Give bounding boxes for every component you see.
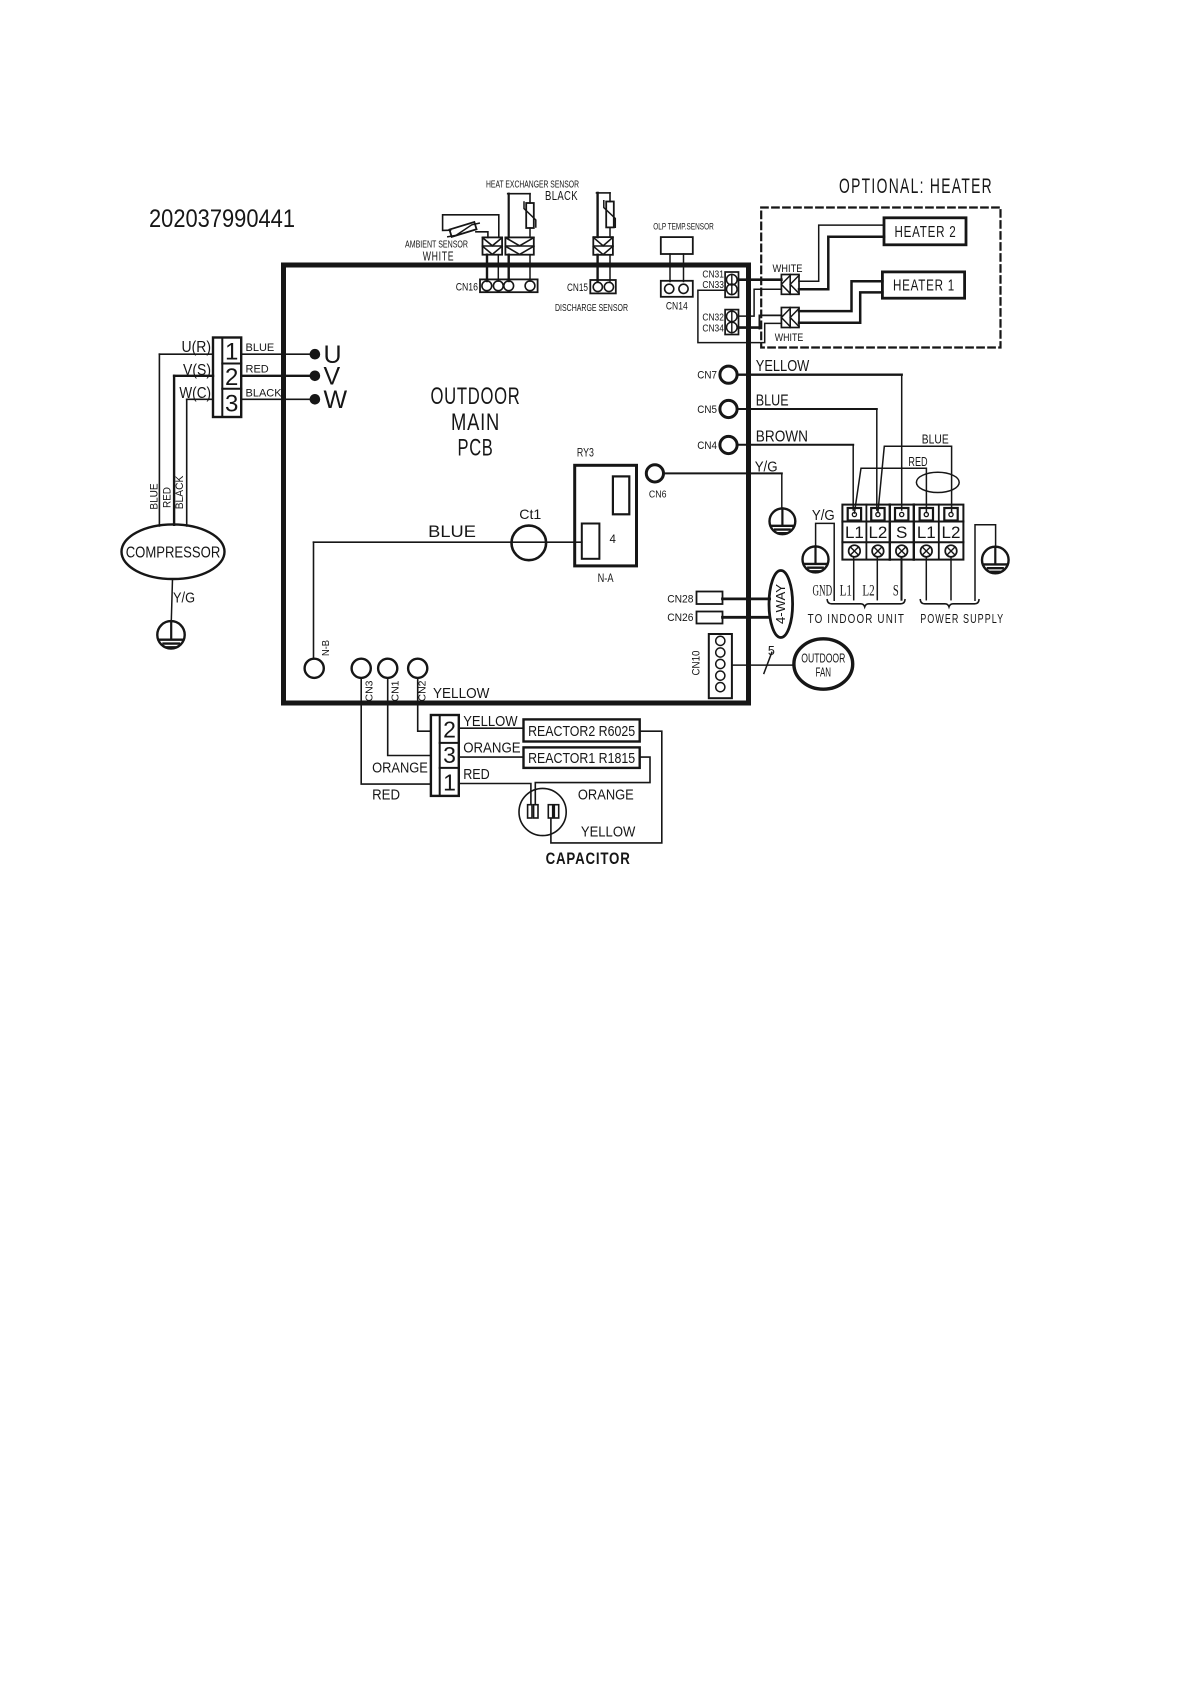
BROWN wire label	[756, 429, 808, 446]
svg-text:YELLOW: YELLOW	[463, 713, 518, 730]
svg-text:1: 1	[443, 770, 456, 796]
svg-text:DISCHARGE SENSOR: DISCHARGE SENSOR	[555, 302, 628, 314]
svg-text:YELLOW: YELLOW	[433, 685, 490, 702]
connector CN16	[456, 279, 538, 293]
rotated BLACK label	[174, 475, 186, 509]
YELLOW wire label	[756, 358, 810, 375]
svg-text:Y/G: Y/G	[173, 590, 195, 607]
svg-text:REACTOR1 R1815: REACTOR1 R1815	[528, 750, 635, 767]
wire reactor1 orange loop to capacitor	[535, 757, 650, 805]
wire U right with node	[241, 341, 341, 369]
ambient sensor label	[405, 239, 468, 264]
svg-text:CN33: CN33	[702, 279, 724, 291]
node N-B	[305, 640, 332, 678]
U(R) V(S) W(C) labels	[179, 339, 211, 402]
Y/G wire label	[755, 459, 778, 476]
YELLOW label at CN2	[433, 685, 490, 702]
svg-text:OUTDOOR: OUTDOOR	[431, 383, 521, 410]
discharge sensor thermistor RT	[604, 201, 616, 228]
discharge sensor wire to connector	[609, 227, 611, 237]
wire reactor2 yellow loop to capacitor	[551, 731, 662, 843]
terminal screw L1 power	[921, 545, 933, 557]
terminal top clamp L2 indoor	[871, 508, 884, 521]
wire U(R) left	[159, 353, 213, 355]
connector CN7	[697, 366, 737, 383]
svg-text:RED: RED	[372, 787, 400, 804]
ground wire power side	[975, 525, 996, 601]
jumper red wire L1 to L1	[854, 455, 927, 513]
wire pin2 to reactor2	[459, 713, 524, 730]
wires from OLP sensor to CN14	[670, 254, 684, 282]
connector CN32 CN34	[702, 310, 738, 335]
4-way valve	[769, 571, 793, 638]
OLP temp sensor box	[661, 237, 693, 254]
heat exchanger sensor thermistor RT	[524, 202, 536, 228]
wire V right with node	[241, 363, 340, 391]
U V W terminal strip	[213, 338, 241, 418]
svg-text:4: 4	[610, 534, 617, 546]
svg-text:L2: L2	[862, 583, 874, 600]
POWER SUPPLY label	[920, 611, 1004, 626]
node CN2	[408, 659, 428, 702]
svg-text:RY3: RY3	[577, 448, 594, 460]
svg-text:WHITE: WHITE	[773, 263, 803, 275]
outdoor fan motor	[794, 639, 853, 689]
connector CN15	[567, 280, 616, 294]
node CN3	[352, 659, 376, 702]
compressor	[122, 524, 225, 579]
svg-text:CAPACITOR: CAPACITOR	[546, 850, 631, 868]
connector CN28	[667, 592, 722, 606]
ground symbol for CN6	[770, 508, 796, 534]
svg-text:CN15: CN15	[567, 282, 588, 294]
svg-text:FAN: FAN	[816, 666, 832, 680]
svg-text:HEATER 2: HEATER 2	[895, 224, 957, 241]
wire CN31 to upper plug	[739, 278, 782, 281]
svg-text:YELLOW: YELLOW	[581, 824, 636, 841]
terminal top clamp L1 indoor	[848, 508, 861, 521]
wire CN28 to 4-way	[723, 598, 770, 601]
svg-text:BLUE: BLUE	[246, 342, 275, 354]
wires from discharge plug to CN15	[598, 255, 610, 281]
wire CN1 to pin3	[388, 678, 431, 756]
svg-text:L1: L1	[917, 523, 936, 542]
svg-text:4-WAY: 4-WAY	[774, 583, 788, 624]
svg-text:L1: L1	[845, 523, 864, 542]
svg-text:CN28: CN28	[667, 593, 693, 605]
terminal top clamp S	[895, 508, 908, 521]
svg-text:L2: L2	[942, 523, 961, 542]
svg-text:2: 2	[443, 717, 456, 743]
wire N-B to Ct1 to RY3	[314, 542, 582, 658]
svg-text:OLP TEMP.SENSOR: OLP TEMP.SENSOR	[653, 222, 714, 232]
twisted pair ellipse	[916, 472, 959, 492]
connector CN14	[661, 281, 693, 313]
part number label	[149, 205, 295, 233]
compressor Y/G label	[173, 590, 195, 607]
connector CN10	[691, 634, 732, 698]
svg-text:YELLOW: YELLOW	[756, 358, 810, 375]
BLUE label center	[428, 522, 476, 541]
capacitor	[519, 788, 566, 835]
wire W(C) left	[187, 398, 213, 400]
svg-text:L2: L2	[868, 523, 887, 542]
wire CN34 to lower plug	[739, 315, 782, 328]
ground symbol power side	[982, 547, 1009, 574]
wire CN32 to upper plug	[739, 289, 782, 316]
discharge sensor label	[555, 302, 628, 314]
wire blue down to compressor	[158, 354, 160, 526]
ORANGE label left	[372, 760, 428, 777]
OLP temp sensor label	[653, 222, 714, 232]
heat exchanger sensor label	[486, 179, 579, 204]
y/g wire to gnd	[816, 523, 835, 600]
wire W right with node	[241, 386, 347, 414]
svg-text:N-A: N-A	[598, 573, 614, 585]
outdoor main PCB title	[431, 383, 521, 462]
TO INDOOR UNIT label	[808, 611, 905, 626]
BLUE wire label	[756, 393, 789, 410]
svg-text:CN7: CN7	[697, 370, 717, 382]
terminal top clamp L2 power	[944, 508, 957, 521]
svg-text:Y/G: Y/G	[812, 507, 835, 524]
svg-text:CN26: CN26	[667, 612, 693, 624]
svg-text:L1: L1	[840, 583, 852, 600]
heater plug WHITE upper label	[773, 263, 803, 275]
svg-text:Y/G: Y/G	[755, 459, 778, 476]
brace power supply	[920, 600, 979, 607]
svg-text:RED: RED	[162, 487, 174, 508]
svg-text:BLUE: BLUE	[756, 393, 789, 410]
svg-text:3: 3	[225, 391, 238, 418]
compressor ground wire	[171, 579, 172, 621]
terminal screw L2 indoor	[872, 545, 884, 557]
node CN1	[378, 659, 401, 702]
svg-text:BLACK: BLACK	[545, 188, 578, 203]
svg-text:CN1: CN1	[390, 680, 402, 701]
GND L1 L2 S labels	[813, 583, 899, 600]
svg-text:WHITE: WHITE	[423, 249, 455, 264]
discharge sensor connector plug	[593, 237, 613, 255]
ground symbol left of terminal	[803, 546, 829, 572]
wire CN3 to pin1	[361, 678, 431, 784]
svg-text:BLUE: BLUE	[428, 522, 476, 541]
svg-text:N-B: N-B	[321, 640, 332, 656]
svg-text:GND: GND	[813, 583, 833, 600]
svg-text:CN6: CN6	[649, 489, 667, 501]
wire V(S) left	[174, 375, 213, 377]
svg-text:BLUE: BLUE	[922, 433, 949, 447]
reactor 1 box	[524, 747, 640, 768]
heat exchanger sensor wire to connector	[529, 228, 531, 237]
heater plug connector upper (white)	[781, 275, 799, 295]
ambient sensor connector plug	[483, 237, 503, 254]
optional heater label	[839, 175, 993, 198]
svg-text:WHITE: WHITE	[775, 332, 804, 344]
optional heater dashed enclosure	[761, 208, 1000, 348]
svg-text:BLUE: BLUE	[149, 483, 161, 509]
svg-text:OUTDOOR: OUTDOOR	[801, 652, 845, 666]
svg-text:5: 5	[768, 644, 775, 658]
RED label left	[372, 787, 400, 804]
heat exchanger sensor wire loop	[508, 194, 530, 238]
svg-text:202037990441: 202037990441	[149, 205, 295, 233]
svg-text:BLACK: BLACK	[246, 388, 283, 400]
heater 2 box	[884, 218, 966, 245]
ambient sensor wire to connector	[476, 232, 488, 238]
svg-text:CN16: CN16	[456, 282, 478, 294]
terminal screw S	[896, 545, 908, 557]
svg-text:CN3: CN3	[364, 680, 376, 701]
svg-text:W: W	[324, 386, 348, 414]
CAPACITOR label	[546, 850, 631, 868]
connector CN31 CN33	[702, 269, 738, 298]
svg-text:ORANGE: ORANGE	[463, 740, 520, 757]
wire pin3 to reactor1	[459, 740, 524, 758]
svg-text:ORANGE: ORANGE	[372, 760, 428, 777]
wire CN7 yellow to S terminal	[737, 375, 901, 510]
heater plug connector lower (white)	[781, 308, 799, 328]
svg-text:RED: RED	[246, 364, 269, 376]
svg-text:RED: RED	[908, 455, 927, 469]
rotated RED label	[162, 487, 174, 508]
svg-text:S: S	[893, 583, 899, 600]
wire pin1 red to capacitor	[459, 766, 531, 805]
discharge sensor wire loop	[597, 193, 611, 237]
wire black down to compressor	[186, 399, 188, 526]
svg-text:1: 1	[225, 339, 238, 366]
svg-text:CN34: CN34	[702, 322, 724, 334]
connector CN6	[646, 465, 666, 501]
connector CN26	[667, 612, 722, 625]
svg-text:MAIN: MAIN	[451, 409, 500, 436]
wire CN33 loop to lower plug	[698, 290, 782, 342]
ambient sensor thermistor RT	[448, 222, 479, 237]
heater plug WHITE lower label	[775, 332, 804, 344]
svg-text:RED: RED	[463, 766, 490, 783]
svg-text:POWER SUPPLY: POWER SUPPLY	[920, 611, 1004, 626]
heat exchanger sensor connector plug	[505, 237, 533, 254]
ambient sensor wire loop	[443, 215, 499, 238]
svg-text:ORANGE: ORANGE	[578, 787, 634, 804]
wires from sensor plugs to CN16	[487, 255, 530, 281]
wire CN10 to outdoor fan	[732, 664, 794, 666]
jumper blue wire L2 to L2	[878, 433, 952, 513]
svg-text:OPTIONAL: HEATER: OPTIONAL: HEATER	[839, 175, 993, 198]
brace to indoor unit	[827, 600, 905, 607]
5-wire slash mark	[764, 644, 775, 673]
svg-text:CN4: CN4	[697, 440, 717, 452]
svg-text:3: 3	[443, 742, 456, 768]
terminal screw L2 power	[945, 545, 957, 557]
wire CN5 blue to L2 indoor	[737, 409, 876, 510]
svg-text:CN10: CN10	[691, 651, 703, 676]
wire CN6 y/g to ground	[664, 473, 782, 508]
outdoor main PCB board outline	[284, 265, 749, 703]
wire CN2 to pin2	[418, 678, 431, 731]
wire heater2 upper	[799, 225, 884, 281]
svg-text:CN14: CN14	[666, 301, 688, 313]
connector CN5	[697, 400, 737, 417]
connector CN4	[697, 436, 737, 453]
wire CN4 brown to L1 indoor	[737, 445, 853, 510]
terminal top clamp L1 power	[920, 508, 933, 521]
svg-text:TO INDOOR UNIT: TO INDOOR UNIT	[808, 611, 905, 626]
svg-text:CN5: CN5	[697, 404, 717, 416]
svg-text:HEATER 1: HEATER 1	[893, 278, 955, 295]
wires terminal screws down	[854, 557, 951, 600]
wire heater1 lower	[799, 292, 882, 322]
terminal block body	[842, 505, 963, 560]
connector strip 2 3 1	[431, 715, 459, 796]
reactor 2 box	[524, 719, 640, 741]
svg-text:REACTOR2 R6025: REACTOR2 R6025	[528, 723, 635, 740]
current transformer Ct1	[512, 506, 547, 560]
terminal screw L1 indoor	[849, 545, 861, 557]
relay RY3	[575, 448, 637, 586]
wire red down to compressor	[173, 376, 175, 525]
wire heater1 upper	[799, 281, 882, 311]
rotated BLUE label	[149, 483, 161, 509]
compressor ground symbol	[157, 621, 184, 648]
svg-text:2: 2	[225, 364, 238, 391]
svg-text:Ct1: Ct1	[519, 506, 541, 522]
wire CN26 to 4-way	[723, 616, 770, 619]
Y/G label at terminal	[812, 507, 835, 524]
svg-text:PCB: PCB	[458, 435, 494, 462]
terminal labels row	[845, 523, 961, 542]
svg-text:COMPRESSOR: COMPRESSOR	[126, 545, 221, 562]
svg-text:BROWN: BROWN	[756, 429, 808, 446]
svg-text:BLACK: BLACK	[174, 475, 186, 509]
heater 1 box	[882, 272, 964, 298]
svg-text:S: S	[896, 523, 907, 542]
wire heater2 lower	[799, 237, 884, 290]
